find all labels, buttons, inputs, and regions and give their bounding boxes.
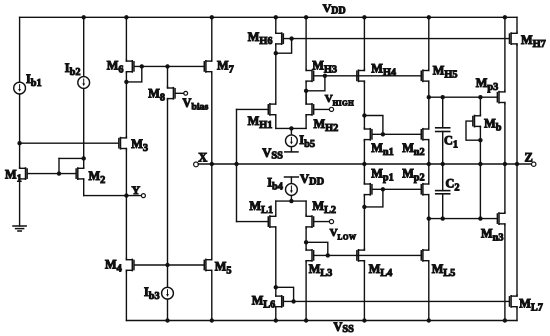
node Mb top junction — [478, 95, 482, 99]
wire ML1 gate lead — [237, 221, 268, 223]
wire MH7 drain to ML7 drain — [516, 45, 518, 295]
wire ML1-ML2 tail row — [276, 200, 306, 202]
svg-text:Mb: Mb — [484, 117, 502, 134]
wire MH2 gate stub — [314, 108, 329, 110]
node X row - column C — [362, 162, 366, 166]
node ML3 drain junction — [304, 240, 308, 244]
node M6 gate junction — [140, 64, 144, 68]
transistor ML5 — [421, 249, 429, 262]
wire M2 source down — [83, 180, 85, 196]
wire Mn1-Mn2 gate line — [373, 133, 421, 135]
terminal Vbias — [184, 91, 188, 95]
transistor MH7 — [509, 32, 517, 45]
wire MH4 drain to Mn1 — [363, 82, 365, 128]
ground — [13, 226, 26, 231]
svg-text:ML4: ML4 — [369, 262, 393, 279]
wire VSS rail — [126, 320, 517, 322]
wire Ib4 to tail — [290, 195, 292, 201]
wire MH1 source down — [275, 116, 277, 129]
terminal X — [194, 162, 199, 167]
wire ML6 diode connection — [276, 287, 294, 301]
svg-text:M5: M5 — [215, 260, 232, 277]
transistor Mn3 — [497, 212, 505, 225]
svg-text:Z: Z — [525, 151, 533, 165]
wire Mn1 source to X row — [363, 141, 365, 183]
svg-text:Ib4: Ib4 — [267, 175, 283, 192]
node VDD-Mp3 — [503, 15, 507, 19]
svg-text:M6: M6 — [107, 58, 124, 75]
svg-text:Mp2: Mp2 — [402, 166, 425, 183]
label VDD (top rail) — [323, 1, 346, 16]
transistor M2 — [76, 167, 84, 180]
current source Ib2 — [78, 77, 90, 89]
transistor MH4 — [357, 69, 365, 82]
svg-text:VSS: VSS — [334, 320, 355, 335]
label Z — [525, 151, 533, 165]
current source Ib4 — [286, 184, 298, 196]
wire M8 gate stub — [176, 92, 184, 94]
node ML6-VSS — [274, 318, 278, 322]
svg-text:VSS: VSS — [262, 146, 283, 162]
label V_HIGH — [325, 93, 355, 108]
label Ib2 — [65, 61, 81, 78]
wire MH2 source up — [305, 91, 307, 103]
wire MH2 source down — [305, 116, 307, 129]
label ML2 — [312, 199, 336, 216]
wire ML3-ML4-ML5 gate line — [314, 254, 421, 256]
wire Mp2 drain row to Mn3 gate — [429, 218, 497, 220]
node Mb column bottom junction — [478, 216, 482, 220]
transistor M1 — [20, 167, 28, 180]
label ML6 — [252, 294, 276, 311]
power VDD bar above Ib4 — [285, 176, 299, 178]
transistor M3 — [119, 137, 127, 150]
svg-text:VDD: VDD — [300, 172, 324, 188]
node M1 drain / M3 gate junction — [17, 141, 21, 145]
power VSS bar under Ib5 — [285, 151, 298, 153]
svg-text:MH2: MH2 — [314, 117, 339, 134]
wire M8 source down to Ib3 — [167, 100, 169, 288]
label Ib5 — [299, 133, 315, 150]
wire VDD to MH5 source — [428, 17, 430, 69]
label Mp3 — [476, 76, 499, 93]
wire Ib3 to VSS — [167, 299, 169, 320]
svg-text:ML7: ML7 — [519, 296, 543, 313]
wire Ib2 to M2 drain — [83, 88, 85, 167]
node MH3 drain junction — [304, 89, 308, 93]
label M1 — [5, 167, 22, 184]
wire ML1 drain up — [275, 201, 277, 215]
svg-text:Ib1: Ib1 — [26, 72, 42, 89]
transistor MH3 — [306, 69, 314, 82]
label M3 — [131, 137, 148, 154]
label C2 — [446, 177, 460, 194]
node C1 top junction — [441, 95, 445, 99]
node Y junction — [124, 193, 128, 197]
transistor ML4 — [357, 249, 365, 262]
node Mp2 drain junction — [427, 216, 431, 220]
terminal Y — [141, 194, 145, 198]
svg-text:MH6: MH6 — [248, 30, 273, 47]
label Mp2 — [402, 166, 425, 183]
node C2 bottom junction — [441, 216, 445, 220]
node X on M7-M5 — [210, 162, 214, 166]
transistor Mn1 — [364, 128, 372, 141]
svg-text:Mp3: Mp3 — [476, 76, 499, 93]
wire Ib1 to M1 drain — [19, 94, 21, 167]
transistor M5 — [204, 258, 212, 271]
transistor ML2 — [306, 215, 314, 228]
current source Ib3 — [162, 287, 174, 299]
node Z - Mp3/Mn3 column — [503, 162, 507, 166]
svg-text:Mn1: Mn1 — [371, 141, 394, 158]
label VDD (Ib4) — [300, 172, 324, 188]
wire VDD rail — [20, 16, 517, 18]
wire VDD to MH6 source — [275, 17, 277, 32]
node Z - output column — [515, 162, 519, 166]
capacitor C2 — [436, 191, 450, 194]
wire MH5 drain row to Mp3 gate — [429, 96, 497, 98]
svg-text:VHIGH: VHIGH — [325, 93, 355, 108]
svg-text:ML1: ML1 — [249, 199, 273, 216]
node Mp1 gate junction — [381, 187, 385, 191]
node ML6 gate junction — [291, 299, 295, 303]
svg-text:Mn3: Mn3 — [481, 227, 504, 244]
label Vbias — [183, 96, 209, 113]
label M6 — [107, 58, 124, 75]
wire ML2 drain up — [305, 201, 307, 215]
wire VDD to M7 source — [211, 17, 213, 60]
node VDD-M7 — [210, 15, 214, 19]
label MH5 — [433, 64, 458, 81]
wire ML3 source to VSS — [305, 262, 307, 321]
wire C2 top lead — [442, 164, 444, 191]
wire ML2 source to ML3 drain — [305, 228, 307, 249]
label ML5 — [432, 262, 456, 279]
wire Mp1-Mp2 gate line — [373, 188, 421, 190]
transistor Mp2 — [421, 183, 429, 196]
node MH3 gate junction — [323, 74, 327, 78]
node MH6 gate junction — [289, 36, 293, 40]
label M5 — [215, 260, 232, 277]
transistor Mn2 — [421, 128, 429, 141]
transistor ML1 — [268, 215, 276, 228]
svg-text:Mp1: Mp1 — [371, 166, 394, 183]
wire M1 drain row to M3 gate — [20, 142, 119, 144]
svg-text:VDD: VDD — [323, 1, 346, 16]
node Mn1 drain junction — [362, 113, 366, 117]
wire M8 drain up — [167, 66, 169, 87]
node Mp1 drain junction — [362, 205, 366, 209]
svg-text:M3: M3 — [131, 137, 148, 154]
wire VDD to Ib2 — [83, 17, 85, 76]
wire Mb gate diode connection — [466, 121, 480, 140]
wire Mp2 drain to ML5 — [428, 196, 430, 250]
transistor MH1 — [268, 103, 276, 116]
transistor MH5 — [421, 69, 429, 82]
label MH3 — [312, 58, 337, 75]
node X row - Mb column — [478, 162, 482, 166]
node Ib3-VSS — [165, 318, 169, 322]
label X — [198, 151, 207, 165]
current source Ib1 — [14, 82, 26, 94]
wire ML6 source to VSS — [275, 308, 277, 321]
transistor MH2 — [306, 103, 314, 116]
node VDD-MH4 — [362, 15, 366, 19]
svg-text:VLOW: VLOW — [330, 227, 357, 242]
wire Mn2 source to X row — [428, 141, 430, 183]
node Mn3-VSS — [503, 318, 507, 322]
label Mb — [484, 117, 502, 134]
wire Mp1 drain to ML4 — [363, 196, 365, 250]
label Mn1 — [371, 141, 394, 158]
label MH2 — [314, 117, 339, 134]
wire VDD to Ib1 — [19, 17, 21, 82]
wire M5 source to VSS — [211, 271, 213, 320]
label ML1 — [249, 199, 273, 216]
label M2 — [89, 169, 106, 186]
wire C1 bottom lead — [442, 132, 444, 165]
wire M1-M2 gate line — [28, 173, 76, 175]
wire X row (X to Z) — [198, 163, 531, 165]
wire M6 diode connection — [126, 66, 141, 82]
transistor ML6 — [276, 295, 284, 308]
transistor M8 — [168, 87, 176, 100]
svg-text:Ib5: Ib5 — [299, 133, 315, 150]
svg-text:Mn2: Mn2 — [402, 141, 425, 158]
label Ib3 — [144, 285, 160, 302]
label VSS (Ib5) — [262, 146, 283, 162]
label Mp1 — [371, 166, 394, 183]
node M4-M5 gate junction — [165, 263, 169, 267]
svg-text:MH3: MH3 — [312, 58, 337, 75]
wire M2 source to Y — [84, 195, 127, 197]
transistor Mp3 — [497, 91, 505, 104]
node VDD-Ib2 — [82, 15, 86, 19]
node VDD-MH6 — [274, 15, 278, 19]
wire VDD to MH4 source — [363, 17, 365, 69]
node MH6 drain junction — [274, 51, 278, 55]
transistor ML3 — [306, 249, 314, 262]
terminal V_HIGH — [329, 107, 333, 111]
wire MH1 gate lead — [237, 108, 268, 110]
wire MH6-MH7 gate line — [284, 38, 509, 40]
label MH6 — [248, 30, 273, 47]
wire M6 drain to M3 drain — [125, 73, 127, 137]
svg-text:X: X — [198, 151, 207, 165]
node M8 drain on mirror gate line — [165, 64, 169, 68]
label M8 — [148, 86, 165, 103]
wire ML6-ML7 gate line — [284, 300, 509, 302]
label Ib4 — [267, 175, 283, 192]
label MH4 — [371, 61, 396, 78]
node M6 drain junction — [124, 80, 128, 84]
svg-text:Ib3: Ib3 — [144, 285, 160, 302]
wire M1 source to ground — [19, 180, 21, 226]
wire MH1-MH2 tail row — [276, 127, 306, 129]
node Mb source junction — [478, 138, 482, 142]
svg-text:MH7: MH7 — [521, 33, 546, 50]
transistor M7 — [204, 60, 212, 73]
wire Mp3 drain to Mn3 drain — [504, 104, 506, 213]
wire Ib5 to VSS bar — [290, 147, 292, 152]
label V_LOW — [330, 227, 357, 242]
node ML3-VSS — [304, 318, 308, 322]
node tail of ML pair — [289, 199, 293, 203]
wire VDD to Mp3 source — [504, 17, 506, 91]
node X row - column D — [427, 162, 431, 166]
svg-text:Y: Y — [132, 183, 141, 197]
wire ML2 gate stub — [314, 221, 329, 223]
node ML5-VSS — [427, 318, 431, 322]
svg-text:ML5: ML5 — [432, 262, 456, 279]
wire ML1 source to ML6 drain — [275, 228, 277, 295]
wire ML7 source to VSS corner — [516, 308, 518, 321]
svg-text:ML2: ML2 — [312, 199, 336, 216]
terminal V_LOW — [329, 220, 333, 224]
wire C1 top lead — [442, 97, 444, 128]
svg-text:M4: M4 — [105, 258, 122, 275]
wire MH3 diode connection — [306, 76, 325, 91]
transistor M6 — [126, 60, 134, 73]
label VSS (bottom rail) — [334, 320, 355, 335]
wire Mb drain up — [479, 97, 481, 115]
node ML6 drain junction — [274, 285, 278, 289]
wire M3 source to M4 drain — [125, 150, 127, 259]
node M1-M2 gate junction — [57, 171, 61, 175]
wire Mp1 diode connection — [364, 189, 383, 207]
transistor Mp1 — [364, 183, 372, 196]
wire ML4 source to VSS — [363, 262, 365, 321]
node tail of MH pair — [289, 126, 293, 130]
wire MH1/ML1 gate column — [236, 109, 238, 221]
wire M4-M5 gate line — [135, 264, 204, 266]
node VDD-MH3 — [304, 15, 308, 19]
capacitor C1 — [436, 128, 450, 132]
wire VDD bar to Ib4 — [290, 177, 292, 184]
svg-text:MH1: MH1 — [248, 114, 273, 131]
wire tail to Ib5 — [290, 128, 292, 135]
wire MH5 drain to Mn2 — [428, 82, 430, 128]
transistor M4 — [126, 258, 134, 271]
wire MH6 drain to MH1 source — [275, 45, 277, 103]
wire MH6 diode connection — [276, 39, 292, 54]
svg-text:ML6: ML6 — [252, 294, 276, 311]
wire Mn1 diode connection — [364, 116, 383, 135]
wire M2 gate to drain link — [59, 157, 84, 159]
transistor MH6 — [276, 32, 284, 45]
wire VDD corner to MH7 source — [516, 17, 518, 32]
label Mn2 — [402, 141, 425, 158]
label ML7 — [519, 296, 543, 313]
svg-text:ML3: ML3 — [309, 262, 333, 279]
svg-text:C1: C1 — [444, 133, 458, 150]
label MH7 — [521, 33, 546, 50]
wire M2 gate riser — [58, 158, 60, 173]
label C1 — [444, 133, 458, 150]
wire Y stub — [126, 195, 141, 197]
wire Mn3 source to VSS — [504, 225, 506, 321]
wire MH3 drain segment — [305, 82, 307, 103]
wire C2 bottom lead — [442, 194, 444, 219]
wire M7 drain to M5 drain — [211, 73, 213, 259]
node M5-VSS — [210, 318, 214, 322]
svg-text:MH5: MH5 — [433, 64, 458, 81]
svg-text:Ib2: Ib2 — [65, 61, 81, 78]
node MH5 drain junction — [427, 95, 431, 99]
node Mn1 gate junction — [381, 132, 385, 136]
svg-text:M8: M8 — [148, 86, 165, 103]
label Mn3 — [481, 227, 504, 244]
label ML3 — [309, 262, 333, 279]
node ML4-VSS — [362, 318, 366, 322]
wire VDD to MH3 source — [305, 17, 307, 69]
wire M4 source to VSS — [125, 271, 127, 320]
node VDD-MH5 — [427, 15, 431, 19]
label M7 — [217, 59, 234, 76]
current source Ib5 — [286, 135, 298, 147]
wire Mb source down — [479, 127, 481, 218]
label MH1 — [248, 114, 273, 131]
node X row - C column — [441, 162, 445, 166]
label Y — [132, 183, 141, 197]
label ML4 — [369, 262, 393, 279]
node ML3 gate junction — [326, 253, 330, 257]
terminal Z — [532, 162, 536, 166]
wire MH3-MH4-MH5 gate line — [314, 75, 420, 77]
transistor Mb — [473, 115, 481, 128]
svg-text:M2: M2 — [89, 169, 106, 186]
label M4 — [105, 258, 122, 275]
wire M6-M7 gate line — [135, 65, 204, 67]
wire ML5 source to VSS — [428, 262, 430, 321]
node M2 drain-gate junction — [82, 156, 86, 160]
label Ib1 — [26, 72, 42, 89]
svg-text:Vbias: Vbias — [183, 96, 209, 113]
node VDD-M6 — [124, 15, 128, 19]
node X-MH1/ML1 gate column — [234, 162, 238, 166]
transistor ML7 — [509, 295, 517, 308]
svg-text:M7: M7 — [217, 59, 234, 76]
wire VDD to M6 source — [125, 17, 127, 60]
wire ML3 diode connection — [306, 242, 328, 255]
